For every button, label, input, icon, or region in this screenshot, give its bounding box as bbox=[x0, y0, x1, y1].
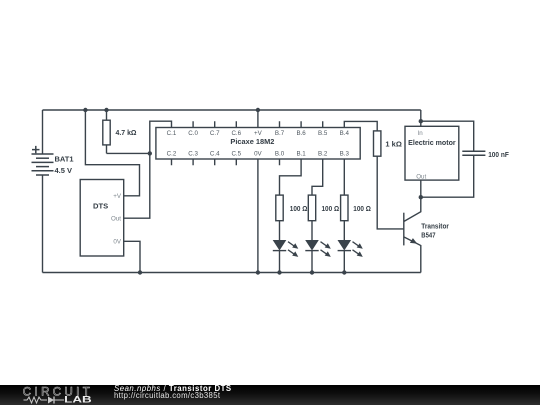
wire capacitor bottom to motor Out bbox=[421, 155, 474, 197]
op-amp U1 Picaxe 18M2 box bbox=[156, 128, 360, 160]
svg-text:Out: Out bbox=[111, 216, 121, 223]
svg-text:C.5: C.5 bbox=[231, 150, 241, 157]
svg-text:+V: +V bbox=[113, 193, 122, 200]
LED D1 bbox=[273, 221, 299, 273]
svg-text:0V: 0V bbox=[113, 239, 121, 246]
pin labels bottom row bbox=[167, 150, 350, 157]
svg-text:C.4: C.4 bbox=[210, 150, 220, 157]
svg-text:In: In bbox=[418, 130, 424, 137]
svg-text:C.2: C.2 bbox=[167, 150, 177, 157]
svg-text:B.2: B.2 bbox=[318, 150, 328, 157]
battery BAT1 bbox=[32, 146, 54, 175]
svg-text:BAT1: BAT1 bbox=[55, 155, 74, 164]
node junction D1 bottom rail bbox=[277, 270, 281, 274]
svg-text:B.0: B.0 bbox=[275, 150, 285, 157]
resistor RA 100 ohm bbox=[276, 195, 283, 221]
svg-text:+V: +V bbox=[254, 130, 263, 137]
pin labels top row bbox=[167, 130, 350, 137]
wire top rail bbox=[43, 109, 421, 111]
svg-text:100 Ω: 100 Ω bbox=[290, 204, 308, 213]
wire motor-In to capacitor top bbox=[421, 121, 474, 151]
node junction +V rail bbox=[83, 108, 87, 112]
resistor RB 100 ohm bbox=[308, 195, 315, 221]
node junction D3 bottom rail bbox=[342, 270, 346, 274]
svg-text:B.7: B.7 bbox=[275, 130, 285, 137]
svg-text:4.7 kΩ: 4.7 kΩ bbox=[116, 128, 137, 137]
svg-text:C.7: C.7 bbox=[210, 130, 220, 137]
wire R1 bottom to Out net bbox=[107, 152, 150, 154]
node junction R1/Out/C.1 bbox=[148, 151, 152, 155]
transistor Q1 bbox=[404, 197, 421, 272]
wire R2 to transistor base bbox=[377, 156, 404, 229]
svg-text:B.6: B.6 bbox=[296, 130, 306, 137]
wire DTS +V to top rail bbox=[85, 110, 139, 196]
wire bottom rail bbox=[43, 272, 421, 274]
svg-text:Electric motor: Electric motor bbox=[408, 138, 456, 147]
svg-text:B.5: B.5 bbox=[318, 130, 328, 137]
node junction 0V pin bottom rail bbox=[256, 270, 260, 274]
node junction motor Out / collector / cap bbox=[419, 195, 423, 199]
wire top rail drop to motor In bbox=[420, 110, 422, 121]
node junction R1 top rail bbox=[104, 108, 108, 112]
svg-text:C.1: C.1 bbox=[167, 130, 177, 137]
svg-text:Out: Out bbox=[416, 173, 426, 180]
pin ticks top C.0 C.7 C.6 B.7 B.6 B.5 bbox=[193, 121, 323, 127]
wire B.4 to resistor R2 1k bbox=[344, 121, 377, 130]
wire motor In pin bbox=[420, 121, 422, 126]
wire DTS 0V to bottom rail bbox=[124, 241, 140, 272]
battery BAT1 top wire bbox=[42, 110, 44, 154]
wire B.2 to resistor RB bbox=[312, 159, 323, 195]
svg-text:100 Ω: 100 Ω bbox=[322, 204, 340, 213]
svg-text:Picaxe 18M2: Picaxe 18M2 bbox=[230, 137, 274, 146]
transistor Q1 emitter arrow bbox=[410, 238, 417, 244]
wire B.1 to resistor RA bbox=[280, 159, 302, 195]
svg-text:Transitor: Transitor bbox=[421, 221, 449, 230]
svg-text:C.6: C.6 bbox=[231, 130, 241, 137]
wire DTS Out to Picaxe C.1 bbox=[124, 121, 172, 218]
svg-text:0V: 0V bbox=[254, 150, 262, 157]
footer bar bbox=[0, 385, 540, 405]
footer url line bbox=[114, 391, 220, 400]
svg-text:100 nF: 100 nF bbox=[488, 150, 509, 159]
svg-text:B.3: B.3 bbox=[340, 150, 350, 157]
svg-text:C.3: C.3 bbox=[188, 150, 198, 157]
node junction D2 bottom rail bbox=[310, 270, 314, 274]
svg-text:B.1: B.1 bbox=[296, 150, 306, 157]
svg-text:B547: B547 bbox=[421, 231, 435, 240]
svg-text:100 Ω: 100 Ω bbox=[353, 204, 371, 213]
svg-text:LAB: LAB bbox=[64, 395, 92, 405]
node junction motor In bbox=[419, 119, 423, 123]
wire Picaxe 0V pin to bottom rail bbox=[257, 159, 259, 273]
LED D3 bbox=[338, 221, 363, 273]
resistor R1 4.7k bbox=[103, 110, 110, 153]
resistor RC 100 ohm bbox=[341, 195, 348, 221]
svg-text:4.5 V: 4.5 V bbox=[55, 166, 73, 175]
svg-text:1 kΩ: 1 kΩ bbox=[385, 139, 401, 148]
svg-text:C.0: C.0 bbox=[188, 130, 198, 137]
wire motor Out pin bbox=[420, 180, 422, 197]
DTS box bbox=[80, 180, 124, 257]
footer title line bbox=[114, 384, 232, 393]
svg-text:DTS: DTS bbox=[93, 202, 108, 211]
resistor R2 1k bbox=[374, 131, 381, 156]
battery BAT1 bottom wire bbox=[42, 175, 44, 273]
motor M1 box bbox=[405, 126, 459, 180]
svg-text:B.4: B.4 bbox=[340, 130, 350, 137]
node junction 0V bottom rail bbox=[138, 270, 142, 274]
LED D2 bbox=[305, 221, 331, 273]
node junction +V pin rail bbox=[256, 108, 260, 112]
CircuitLab logo bbox=[0, 385, 100, 405]
capacitor C1 bbox=[462, 151, 485, 155]
wire B.3 to resistor RC bbox=[343, 159, 345, 195]
pin ticks bottom C.2 C.3 C.4 C.5 B.0 bbox=[172, 159, 280, 165]
wire Picaxe +V pin to top rail bbox=[257, 110, 259, 128]
